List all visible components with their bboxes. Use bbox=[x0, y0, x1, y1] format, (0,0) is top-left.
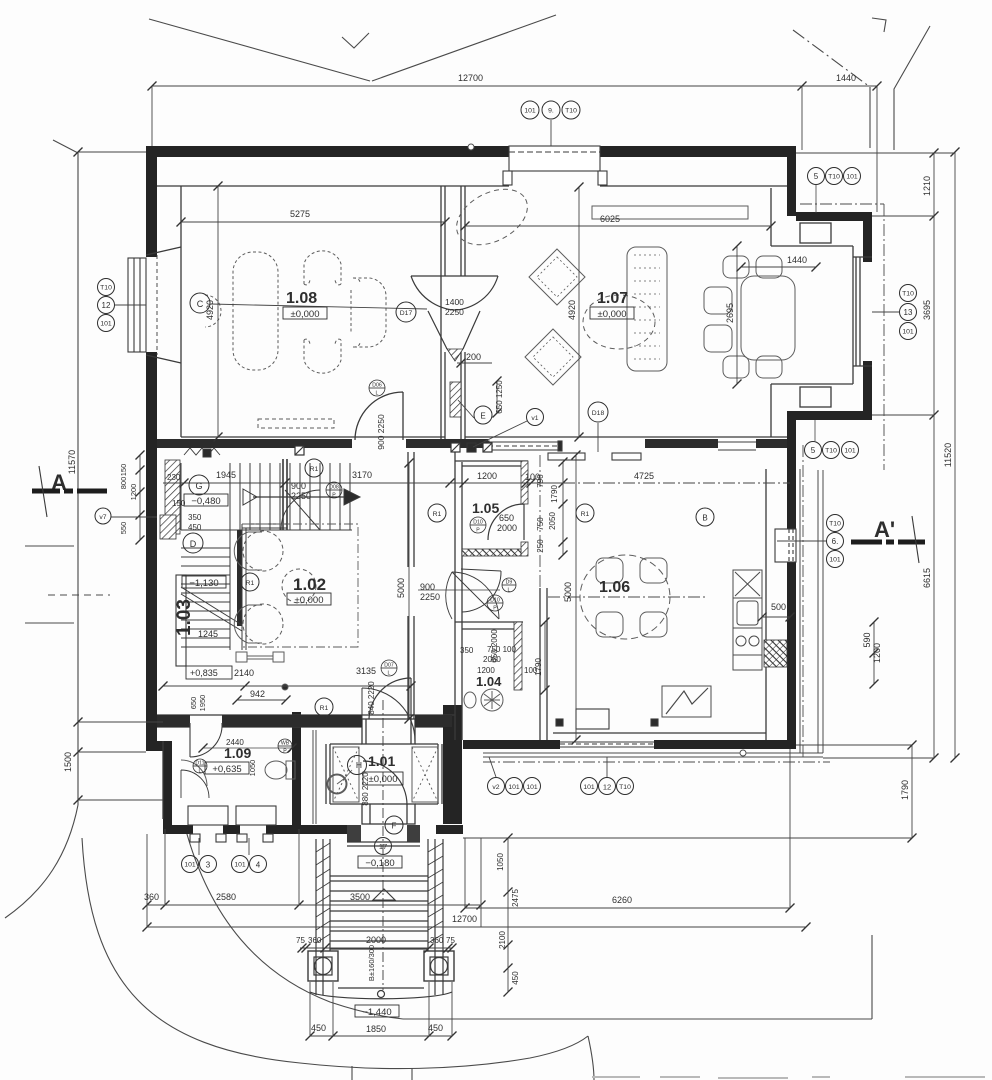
svg-text:1200: 1200 bbox=[477, 471, 497, 481]
svg-text:6.: 6. bbox=[832, 537, 839, 546]
svg-text:WB: WB bbox=[281, 741, 290, 747]
svg-text:360: 360 bbox=[308, 936, 322, 945]
svg-text:6260: 6260 bbox=[612, 895, 632, 905]
svg-text:790: 790 bbox=[536, 474, 545, 488]
svg-text:±0,000: ±0,000 bbox=[598, 309, 627, 320]
svg-text:T10: T10 bbox=[829, 521, 841, 528]
svg-text:2250: 2250 bbox=[420, 592, 440, 602]
svg-text:1950: 1950 bbox=[198, 695, 207, 712]
svg-text:A': A' bbox=[874, 517, 895, 542]
svg-text:650: 650 bbox=[189, 697, 198, 710]
svg-text:2580: 2580 bbox=[216, 892, 236, 902]
svg-text:101: 101 bbox=[829, 557, 841, 564]
svg-text:1945: 1945 bbox=[216, 470, 236, 480]
svg-text:R1: R1 bbox=[310, 466, 319, 473]
svg-text:2050: 2050 bbox=[548, 512, 557, 530]
svg-text:R1: R1 bbox=[320, 705, 329, 712]
svg-text:900: 900 bbox=[291, 481, 306, 491]
svg-text:101: 101 bbox=[583, 784, 595, 791]
svg-text:3: 3 bbox=[206, 861, 211, 870]
svg-text:T10: T10 bbox=[619, 784, 631, 791]
svg-text:3170: 3170 bbox=[352, 470, 372, 480]
svg-text:L: L bbox=[199, 769, 202, 775]
svg-text:5275: 5275 bbox=[290, 209, 310, 219]
svg-text:L: L bbox=[508, 588, 511, 594]
svg-text:5: 5 bbox=[811, 446, 816, 455]
svg-text:500: 500 bbox=[771, 602, 786, 612]
svg-text:P: P bbox=[283, 749, 287, 755]
svg-text:1.09: 1.09 bbox=[224, 745, 251, 761]
svg-text:±0,000: ±0,000 bbox=[295, 595, 324, 606]
svg-text:5000: 5000 bbox=[396, 578, 406, 598]
svg-text:17: 17 bbox=[379, 842, 387, 851]
svg-text:+0,835: +0,835 bbox=[190, 668, 218, 678]
svg-text:450: 450 bbox=[511, 971, 520, 985]
svg-text:1210: 1210 bbox=[922, 176, 932, 196]
svg-text:1440: 1440 bbox=[836, 73, 856, 83]
svg-text:+0,635: +0,635 bbox=[212, 764, 241, 775]
svg-text:12700: 12700 bbox=[452, 914, 477, 924]
svg-text:550: 550 bbox=[119, 522, 128, 535]
svg-text:v1: v1 bbox=[531, 415, 538, 422]
svg-text:650: 650 bbox=[499, 513, 514, 523]
svg-text:1.05: 1.05 bbox=[472, 500, 499, 516]
svg-text:1850: 1850 bbox=[366, 1024, 386, 1034]
svg-text:D17: D17 bbox=[400, 310, 413, 317]
svg-text:101: 101 bbox=[184, 862, 196, 869]
svg-text:D08: D08 bbox=[329, 485, 339, 491]
svg-text:1.07: 1.07 bbox=[597, 290, 628, 307]
svg-text:2100: 2100 bbox=[498, 931, 507, 949]
svg-text:1200: 1200 bbox=[129, 484, 138, 501]
svg-text:350: 350 bbox=[188, 513, 202, 522]
svg-text:T10: T10 bbox=[902, 291, 914, 298]
svg-text:D10: D10 bbox=[473, 520, 483, 526]
svg-text:4725: 4725 bbox=[634, 471, 654, 481]
svg-text:5: 5 bbox=[814, 172, 819, 181]
svg-text:1.08: 1.08 bbox=[286, 290, 317, 307]
svg-text:2250: 2250 bbox=[445, 307, 464, 317]
svg-text:6025: 6025 bbox=[600, 214, 620, 224]
svg-text:840 2220: 840 2220 bbox=[367, 681, 376, 715]
svg-text:2475: 2475 bbox=[511, 889, 520, 907]
svg-text:4: 4 bbox=[256, 861, 261, 870]
svg-text:350: 350 bbox=[460, 646, 474, 655]
svg-text:D07: D07 bbox=[384, 663, 394, 669]
svg-text:v7: v7 bbox=[99, 514, 106, 521]
svg-text:360: 360 bbox=[430, 936, 444, 945]
svg-text:1245: 1245 bbox=[198, 629, 218, 639]
svg-text:P: P bbox=[493, 606, 497, 612]
svg-text:D10: D10 bbox=[490, 598, 500, 604]
svg-text:L: L bbox=[388, 671, 391, 677]
svg-text:E: E bbox=[480, 412, 485, 421]
svg-text:450: 450 bbox=[188, 523, 202, 532]
svg-text:101: 101 bbox=[846, 174, 858, 181]
svg-text:2140: 2140 bbox=[234, 668, 254, 678]
svg-text:1.06: 1.06 bbox=[599, 579, 630, 596]
svg-text:2000: 2000 bbox=[497, 523, 517, 533]
svg-text:1500: 1500 bbox=[63, 752, 73, 772]
svg-text:3695: 3695 bbox=[922, 300, 932, 320]
svg-text:75: 75 bbox=[446, 936, 455, 945]
svg-text:D06: D06 bbox=[372, 383, 382, 389]
svg-text:1.04: 1.04 bbox=[476, 674, 502, 689]
svg-text:650 1250: 650 1250 bbox=[495, 380, 504, 414]
svg-text:5000: 5000 bbox=[563, 582, 573, 602]
svg-text:2250: 2250 bbox=[291, 491, 311, 501]
svg-text:1790: 1790 bbox=[550, 485, 559, 503]
svg-text:200: 200 bbox=[466, 352, 481, 362]
svg-text:D11: D11 bbox=[195, 761, 204, 767]
svg-text:1050: 1050 bbox=[496, 853, 505, 871]
svg-text:4920: 4920 bbox=[567, 300, 577, 320]
svg-text:11570: 11570 bbox=[67, 450, 77, 474]
svg-text:250: 250 bbox=[536, 539, 545, 553]
svg-text:D9: D9 bbox=[506, 580, 513, 586]
svg-text:900 2250: 900 2250 bbox=[376, 414, 386, 450]
svg-text:1790: 1790 bbox=[900, 780, 910, 800]
svg-text:v2: v2 bbox=[492, 784, 499, 791]
svg-text:R1: R1 bbox=[581, 511, 590, 518]
svg-text:900: 900 bbox=[420, 582, 435, 592]
svg-text:800: 800 bbox=[119, 477, 128, 490]
svg-text:1400: 1400 bbox=[445, 297, 464, 307]
svg-text:D: D bbox=[190, 539, 197, 549]
svg-text:942: 942 bbox=[250, 689, 265, 699]
svg-text:T10: T10 bbox=[825, 448, 837, 455]
svg-text:590: 590 bbox=[862, 632, 872, 647]
svg-text:−0,180: −0,180 bbox=[365, 858, 394, 869]
svg-text:±0,000: ±0,000 bbox=[291, 309, 320, 320]
svg-text:−0,480: −0,480 bbox=[191, 496, 220, 507]
svg-text:T10: T10 bbox=[565, 108, 577, 115]
svg-text:1200: 1200 bbox=[872, 643, 882, 663]
svg-text:1.03: 1.03 bbox=[174, 599, 195, 636]
svg-text:H: H bbox=[356, 760, 362, 770]
svg-text:3500: 3500 bbox=[350, 892, 370, 902]
svg-text:R1: R1 bbox=[246, 580, 255, 587]
svg-text:1790: 1790 bbox=[534, 658, 543, 676]
svg-text:B: B bbox=[702, 514, 707, 523]
svg-text:P: P bbox=[476, 528, 480, 534]
svg-text:±0,000: ±0,000 bbox=[369, 774, 398, 785]
svg-text:C: C bbox=[197, 299, 204, 309]
svg-text:650 2000: 650 2000 bbox=[490, 629, 499, 663]
svg-text:101: 101 bbox=[844, 448, 856, 455]
svg-text:12: 12 bbox=[102, 301, 111, 310]
svg-text:3135: 3135 bbox=[356, 666, 376, 676]
svg-text:360: 360 bbox=[144, 892, 159, 902]
svg-text:T10: T10 bbox=[100, 285, 112, 292]
svg-text:75: 75 bbox=[296, 936, 305, 945]
svg-text:12: 12 bbox=[603, 783, 611, 792]
svg-text:T10: T10 bbox=[828, 174, 840, 181]
svg-text:230: 230 bbox=[167, 473, 181, 482]
svg-text:L: L bbox=[376, 391, 379, 397]
svg-text:750: 750 bbox=[536, 517, 545, 531]
svg-text:101: 101 bbox=[902, 329, 914, 336]
svg-text:150: 150 bbox=[119, 464, 128, 477]
svg-text:11520: 11520 bbox=[943, 443, 953, 467]
svg-text:101: 101 bbox=[234, 862, 246, 869]
svg-text:12700: 12700 bbox=[458, 73, 483, 83]
svg-text:9.: 9. bbox=[548, 108, 554, 115]
svg-text:450: 450 bbox=[311, 1023, 326, 1033]
svg-text:B±160/300: B±160/300 bbox=[367, 945, 376, 981]
svg-text:2695: 2695 bbox=[725, 303, 735, 323]
svg-text:P: P bbox=[332, 493, 336, 499]
svg-text:6615: 6615 bbox=[922, 568, 932, 588]
svg-text:1.02: 1.02 bbox=[293, 575, 326, 594]
svg-text:1.01: 1.01 bbox=[368, 753, 395, 769]
svg-text:450: 450 bbox=[428, 1023, 443, 1033]
svg-text:13: 13 bbox=[904, 308, 913, 317]
svg-text:−1,440: −1,440 bbox=[362, 1007, 391, 1018]
svg-text:−1,130: −1,130 bbox=[189, 578, 218, 589]
svg-text:101: 101 bbox=[100, 321, 112, 328]
svg-text:D18: D18 bbox=[592, 410, 605, 417]
svg-text:F: F bbox=[392, 822, 397, 831]
svg-text:1440: 1440 bbox=[787, 255, 807, 265]
svg-text:2000: 2000 bbox=[366, 935, 386, 945]
svg-text:101: 101 bbox=[526, 784, 538, 791]
svg-text:G: G bbox=[195, 481, 202, 491]
svg-text:R1: R1 bbox=[433, 511, 442, 518]
svg-text:101: 101 bbox=[524, 108, 536, 115]
svg-text:101: 101 bbox=[508, 784, 520, 791]
